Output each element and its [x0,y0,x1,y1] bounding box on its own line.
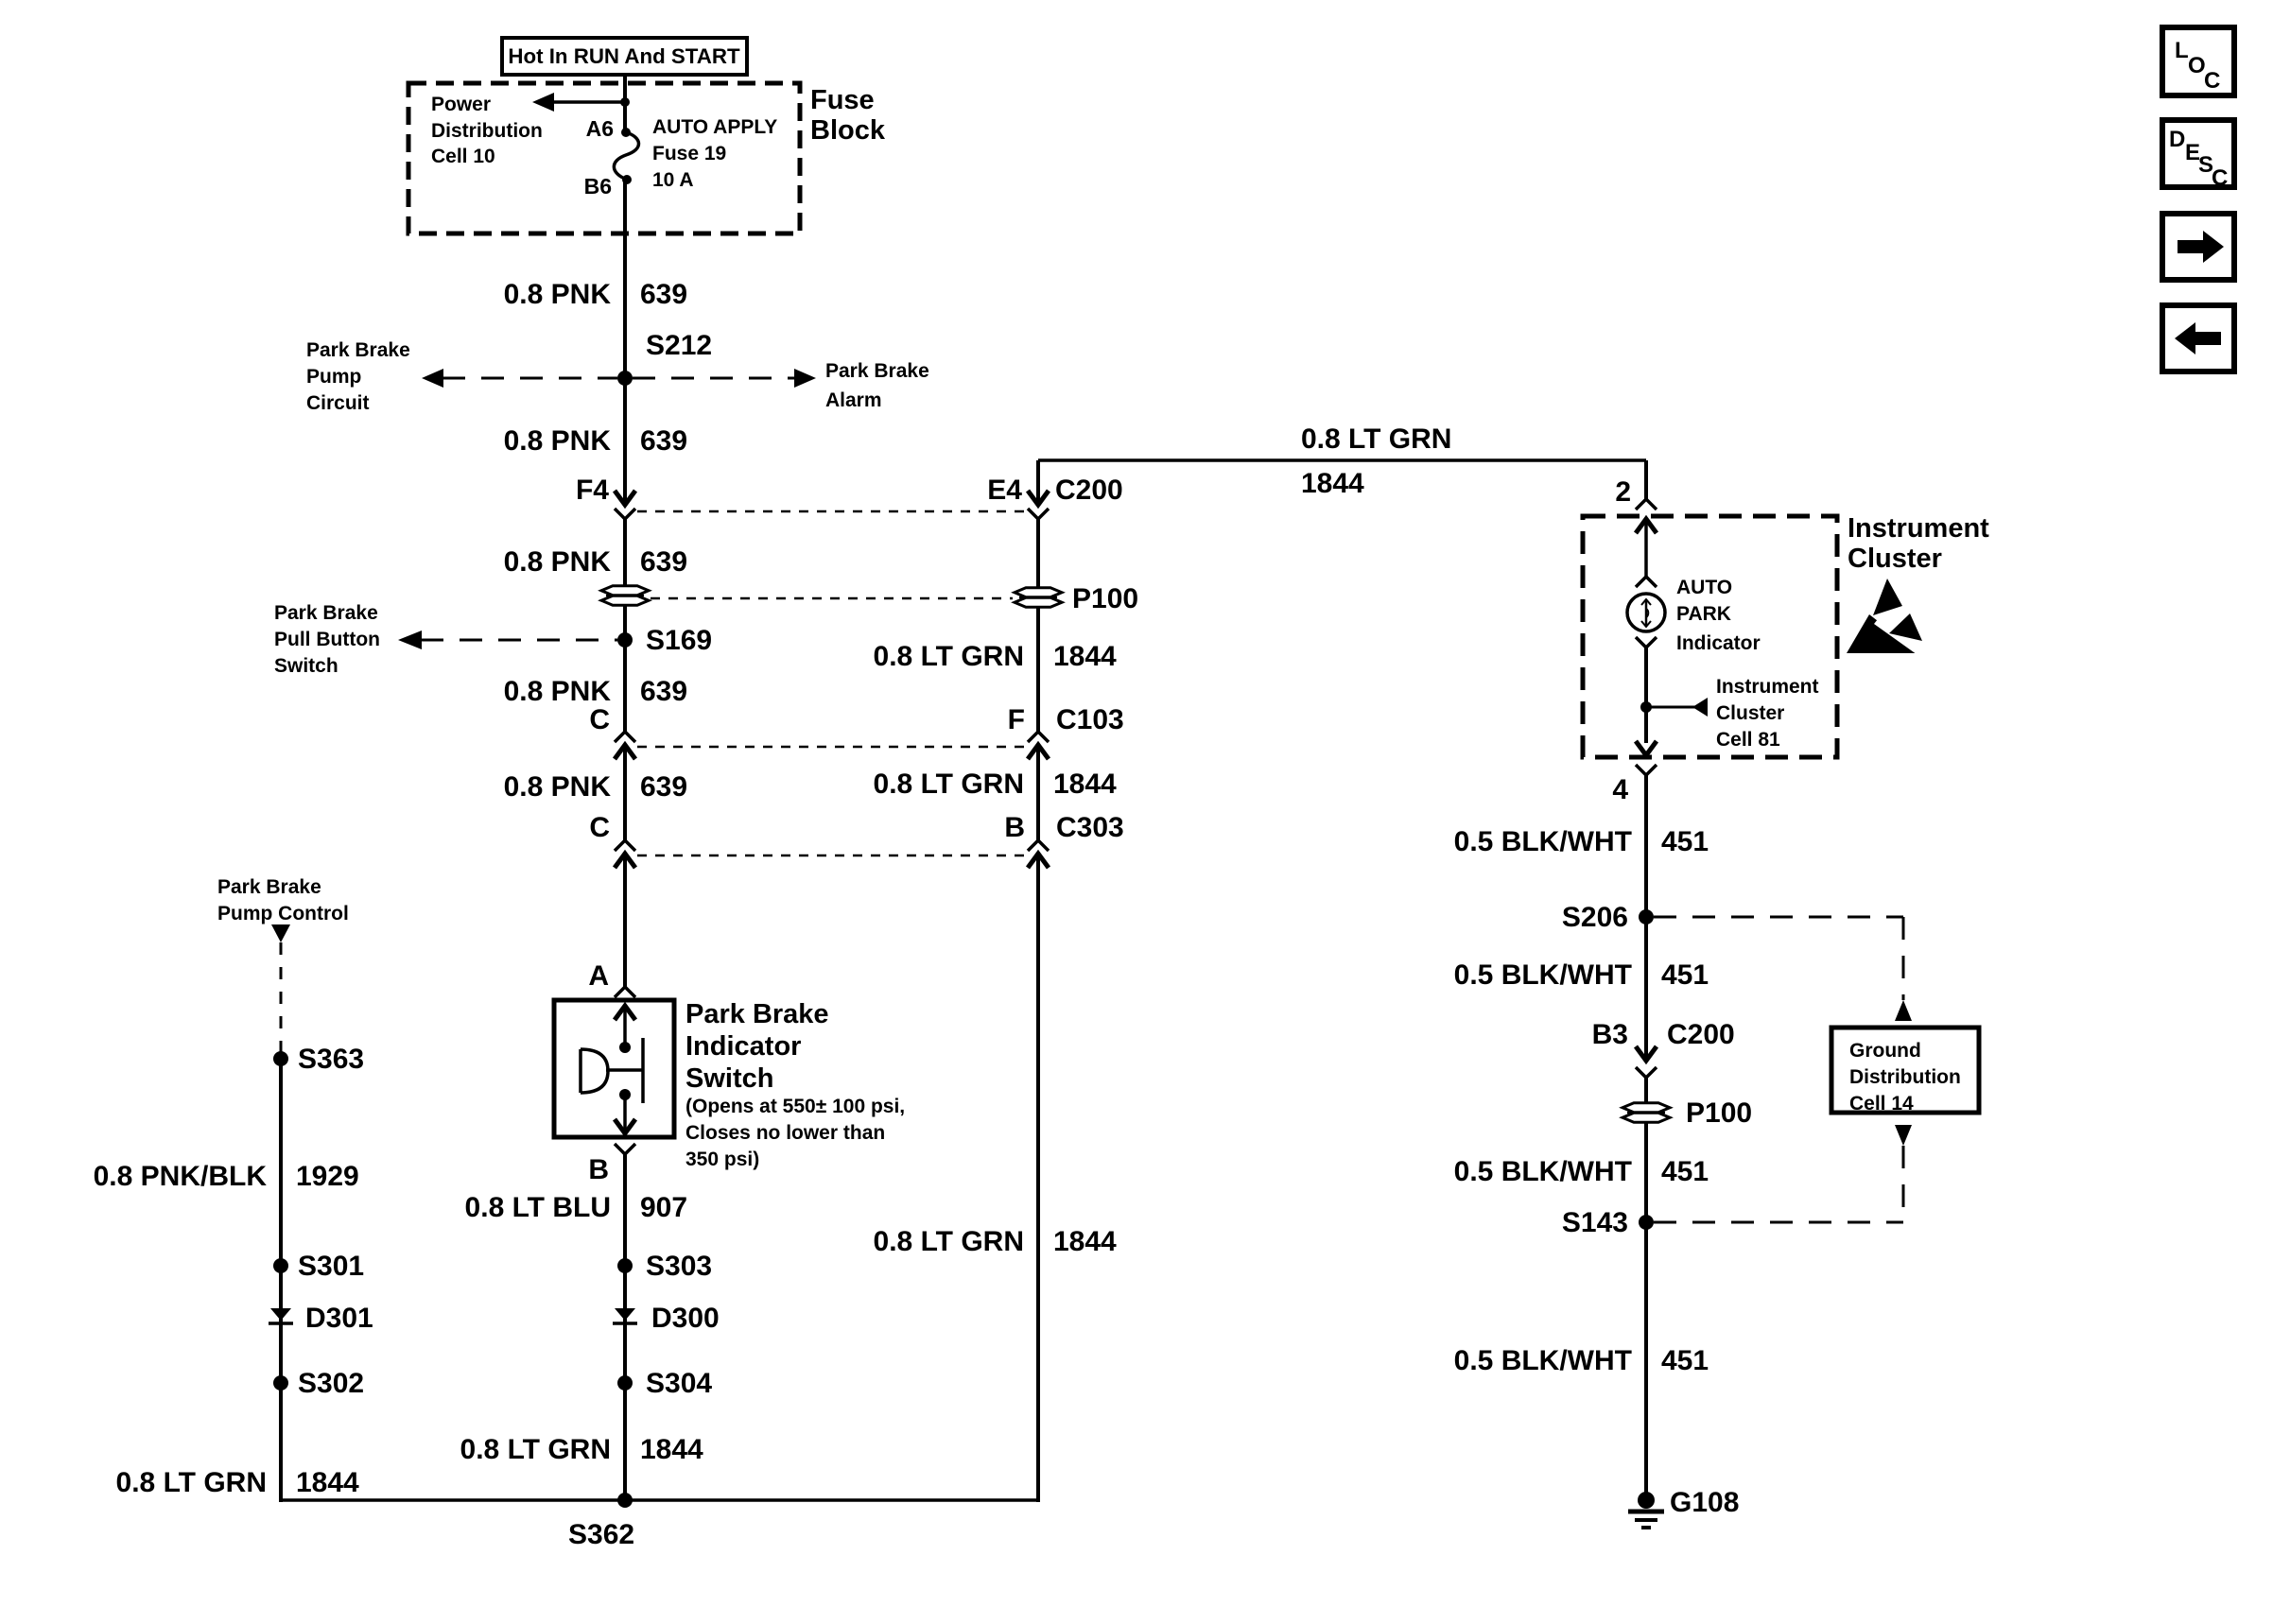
svg-text:4: 4 [1612,774,1628,805]
svg-text:S212: S212 [646,330,712,361]
svg-text:639: 639 [640,546,687,578]
wire: 0.8 PNK 639 C103 to C303 [623,745,627,840]
svg-text:2: 2 [1615,476,1631,508]
svg-text:0.8 LT GRN: 0.8 LT GRN [116,1467,267,1498]
svg-text:S301: S301 [298,1251,364,1282]
grommet P100 (left pass-through) [601,586,649,596]
wire: Hot feed into fuse block [623,75,627,132]
svg-text:451: 451 [1661,959,1709,991]
icon: DESC box [2162,120,2234,187]
switch contact: upper arrow + dot [615,1006,635,1020]
svg-text:L: L [2175,38,2189,63]
svg-text:0.5 BLK/WHT: 0.5 BLK/WHT [1454,959,1632,991]
svg-text:D: D [2169,127,2185,152]
svg-text:Switch: Switch [274,655,338,677]
svg-text:1844: 1844 [640,1434,703,1465]
wire: 0.8 PNK 639 P100 to C103 [623,606,627,732]
wire: 0.8 LT GRN 1844 P100 to C103 [1036,608,1040,732]
splice S143 [1639,1215,1654,1230]
svg-text:C303: C303 [1056,812,1124,843]
svg-text:S143: S143 [1562,1207,1628,1238]
svg-text:0.8 LT GRN: 0.8 LT GRN [1301,423,1451,455]
svg-text:907: 907 [640,1192,687,1223]
splice S302 [273,1375,288,1391]
diode D300 [615,1308,635,1321]
svg-text:D300: D300 [651,1303,720,1334]
svg-text:451: 451 [1661,1345,1709,1376]
svg-text:0.8 PNK: 0.8 PNK [504,425,612,457]
svg-text:PARK: PARK [1676,603,1731,625]
svg-text:Instrument: Instrument [1716,676,1819,698]
svg-text:350 psi): 350 psi) [685,1149,759,1170]
svg-text:Alarm: Alarm [825,389,882,411]
svg-text:AUTO: AUTO [1676,577,1732,598]
svg-text:451: 451 [1661,826,1709,857]
splice S212 [617,371,633,386]
wire: 0.8 PNK 639 F4 to P100 [623,519,627,586]
svg-text:Park Brake: Park Brake [274,602,378,624]
svg-text:639: 639 [640,771,687,803]
svg-text:A: A [588,960,609,992]
svg-text:F: F [1008,704,1025,735]
ESD sensitivity symbol [1847,614,1919,653]
svg-text:0.8 LT GRN: 0.8 LT GRN [874,1226,1024,1257]
park brake indicator switch (box) [554,1000,674,1137]
wire: 0.8 PNK/BLK 1929 S363 down [279,1059,283,1502]
node: Hot In RUN And START feed box [502,38,747,75]
splice S362 [617,1493,633,1508]
svg-text:C103: C103 [1056,704,1124,735]
svg-text:0.5 BLK/WHT: 0.5 BLK/WHT [1454,1345,1632,1376]
svg-text:0.5 BLK/WHT: 0.5 BLK/WHT [1454,1156,1632,1187]
wire: 0.5 BLK/WHT 451 P100 to G108 [1644,1123,1648,1498]
wire: 0.8 LT BLU 907 switch to S362 [623,1154,627,1502]
svg-text:Cluster: Cluster [1716,702,1784,724]
ref: Park Brake Alarm (right dashed arrow) [633,377,794,380]
svg-text:Fuse 19: Fuse 19 [652,143,726,164]
wire: 0.5 BLK/WHT 451 pin4 to B3 [1644,775,1648,1061]
svg-text:F4: F4 [576,475,609,506]
svg-text:Park Brake: Park Brake [825,360,929,382]
svg-text:C: C [589,812,610,843]
svg-text:Cell 14: Cell 14 [1849,1093,1914,1114]
wire: E4 drop from 1844 branch [1036,460,1040,505]
svg-text:Indicator: Indicator [1676,632,1761,654]
svg-text:D301: D301 [305,1303,373,1334]
svg-text:Hot In RUN And START: Hot In RUN And START [508,44,740,68]
svg-text:0.8 PNK: 0.8 PNK [504,771,612,803]
ground G108 [1638,1492,1655,1509]
svg-text:P100: P100 [1072,583,1138,614]
svg-text:0.8 PNK/BLK: 0.8 PNK/BLK [94,1161,268,1192]
svg-text:0.8 PNK: 0.8 PNK [504,676,612,707]
wire: drop into cluster pin 2 [1644,460,1648,499]
splice S206 [1639,909,1654,924]
svg-text:Closes no lower than: Closes no lower than [685,1122,885,1144]
grommet P100 dashed link [651,597,1013,600]
fuse F19 AUTO APPLY 10A [621,128,631,137]
svg-text:A6: A6 [586,116,614,141]
switch contact bar [641,1038,645,1103]
ref: Park Brake Pump Circuit (left dashed arrow) [442,377,617,380]
wire: bottom 1844 bus [281,1498,1038,1502]
svg-text:Park Brake: Park Brake [685,999,829,1029]
svg-text:S363: S363 [298,1044,364,1075]
svg-text:0.8 PNK: 0.8 PNK [504,279,612,310]
svg-text:S304: S304 [646,1368,712,1399]
ref arrow: to Power Distribution Cell 10 [553,100,625,104]
svg-text:Switch: Switch [685,1063,773,1094]
svg-text:S302: S302 [298,1368,364,1399]
svg-text:639: 639 [640,279,687,310]
connector C303 dashed body line [637,855,1026,857]
svg-text:0.8 PNK: 0.8 PNK [504,546,612,578]
ref: Instrument Cluster Cell 81 [1640,701,1652,713]
svg-text:0.8 LT GRN: 0.8 LT GRN [874,769,1024,800]
svg-text:Park Brake: Park Brake [217,876,321,898]
wire: 0.8 LT GRN 1844 C103 to C303 [1036,745,1040,840]
svg-text:451: 451 [1661,1156,1709,1187]
svg-text:639: 639 [640,425,687,457]
svg-text:Instrument: Instrument [1848,513,1989,544]
wire: 0.8 PNK 639 C303 to switch pin A [623,854,627,987]
wire: B3 to P100 [1644,1078,1648,1102]
svg-text:1929: 1929 [296,1161,359,1192]
wire: lamp to pin 4 [1644,648,1648,743]
wire: 0.8 LT GRN 1844 C303 to bottom bus [1036,854,1040,1502]
grommet P100 (right pass-through) [1015,588,1062,597]
svg-text:P100: P100 [1686,1097,1752,1129]
dashed ref to ground distribution (lower) [1895,1125,1912,1146]
svg-text:10 A: 10 A [652,169,694,191]
splice S363 [273,1051,288,1066]
svg-text:Indicator: Indicator [685,1031,801,1062]
svg-text:E4: E4 [987,475,1022,506]
diode D301 [270,1308,291,1321]
switch diaphragm actuator [606,1068,643,1072]
wire: 0.8 LT GRN 1844 E4 to P100 [1036,519,1040,587]
wire: 0.8 LT GRN 1844 top run [1038,458,1646,462]
svg-text:G108: G108 [1670,1487,1739,1518]
connector C200 dashed body line [637,510,1026,513]
svg-text:0.8 LT GRN: 0.8 LT GRN [874,641,1024,672]
svg-text:S169: S169 [646,625,712,656]
svg-text:S303: S303 [646,1251,712,1282]
splice S303 [617,1258,633,1273]
svg-text:0.5 BLK/WHT: 0.5 BLK/WHT [1454,826,1632,857]
svg-text:AUTO APPLY: AUTO APPLY [652,116,777,138]
svg-text:C200: C200 [1667,1019,1735,1050]
svg-text:1844: 1844 [1053,1226,1117,1257]
instrument cluster (dashed outline) [1583,516,1837,757]
svg-text:0.8 LT GRN: 0.8 LT GRN [460,1434,611,1465]
ref: Park Brake Pull Button Switch (dashed arrow left) [421,639,617,642]
svg-text:O: O [2188,53,2206,78]
svg-text:Circuit: Circuit [306,392,370,414]
svg-text:Distribution: Distribution [1849,1066,1961,1088]
dashed ref to ground distribution (upper) [1654,916,1903,919]
svg-text:S206: S206 [1562,902,1628,933]
svg-text:1844: 1844 [1053,641,1117,672]
wire: 0.8 PNK 639 fuse to F4 [623,180,627,505]
svg-text:Power: Power [431,94,491,115]
svg-text:(Opens at 550± 100 psi,: (Opens at 550± 100 psi, [685,1096,905,1117]
ground distribution cell 14 (box) [1831,1028,1979,1113]
svg-text:1844: 1844 [1301,468,1364,499]
splice S169 [617,632,633,648]
svg-text:C: C [2204,68,2220,94]
svg-text:Distribution: Distribution [431,120,543,142]
svg-text:Pump Control: Pump Control [217,903,349,924]
svg-text:S362: S362 [568,1519,634,1550]
svg-text:Pump: Pump [306,366,361,388]
svg-text:C: C [2212,165,2228,191]
svg-text:B3: B3 [1592,1019,1628,1050]
svg-text:1844: 1844 [1053,769,1117,800]
AUTO PARK indicator lamp [1627,594,1665,631]
icon: LOC box [2162,27,2234,95]
connector C103 dashed body line [637,746,1026,749]
grommet P100 (right column) [1622,1103,1670,1113]
svg-text:Ground: Ground [1849,1040,1921,1062]
svg-text:C: C [589,704,610,735]
splice S304 [617,1375,633,1391]
svg-text:Block: Block [810,115,886,146]
fuse block (dashed outline) [408,83,800,233]
icon: next-page arrow box [2162,214,2234,280]
svg-text:Park Brake: Park Brake [306,339,410,361]
svg-text:1844: 1844 [296,1467,359,1498]
svg-text:B: B [1004,812,1025,843]
svg-text:C200: C200 [1055,475,1123,506]
svg-text:Pull Button: Pull Button [274,629,380,650]
splice S301 [273,1258,288,1273]
switch contact: lower dot + arrow [619,1089,631,1100]
svg-text:B6: B6 [584,174,612,199]
icon: prev-page arrow box [2162,305,2234,371]
svg-text:Fuse: Fuse [810,85,875,115]
svg-text:0.8 LT BLU: 0.8 LT BLU [465,1192,611,1223]
svg-text:Cell 81: Cell 81 [1716,729,1780,751]
svg-text:B: B [588,1154,609,1185]
cluster pin 2 internal arrow [1636,519,1657,533]
svg-text:639: 639 [640,676,687,707]
svg-text:Cell 10: Cell 10 [431,146,495,167]
svg-text:Cluster: Cluster [1848,544,1942,574]
